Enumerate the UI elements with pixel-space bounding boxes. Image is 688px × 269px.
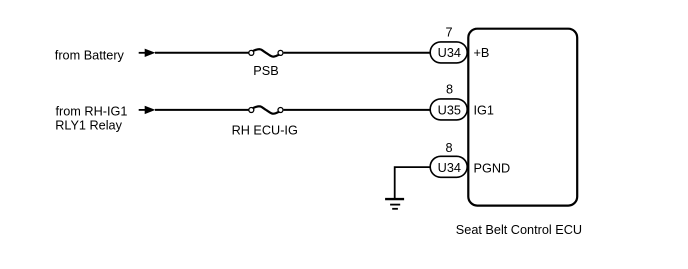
svg-text:U34: U34	[438, 46, 461, 60]
svg-text:RLY1 Relay: RLY1 Relay	[55, 119, 122, 133]
svg-text:RH ECU-IG: RH ECU-IG	[232, 123, 298, 137]
svg-text:from Battery: from Battery	[55, 48, 125, 62]
svg-text:+B: +B	[474, 46, 490, 60]
fuse PSB	[249, 49, 283, 56]
wire: arrow to fuse RH ECU-IG	[155, 109, 249, 111]
wire: fuse PSB to connector U34	[284, 52, 430, 54]
wire: arrow to fuse PSB	[155, 52, 249, 54]
svg-text:PGND: PGND	[474, 161, 511, 175]
svg-text:IG1: IG1	[474, 104, 494, 118]
svg-text:U34: U34	[438, 161, 461, 175]
svg-text:Seat Belt Control ECU: Seat Belt Control ECU	[456, 223, 582, 237]
svg-text:7: 7	[445, 25, 452, 39]
svg-text:8: 8	[445, 141, 452, 155]
label "from RH-IG1 RLY1 Relay"	[55, 105, 127, 133]
svg-text:8: 8	[446, 82, 453, 96]
svg-text:PSB: PSB	[253, 64, 278, 78]
arrow into IG1 wire	[139, 106, 156, 114]
wire: ground to connector U34 pin 8	[395, 167, 430, 198]
wire: fuse RH ECU-IG to connector U35	[284, 109, 430, 111]
ECU box	[468, 29, 577, 206]
connector U34 pin 8	[430, 156, 467, 177]
fuse RH ECU-IG	[249, 106, 283, 113]
svg-text:from RH-IG1: from RH-IG1	[56, 105, 128, 119]
connector U34 pin 7	[430, 42, 467, 63]
ground	[385, 199, 404, 209]
svg-text:U35: U35	[438, 104, 461, 118]
arrow into +B wire	[139, 49, 156, 57]
connector U35 pin 8	[430, 99, 467, 120]
